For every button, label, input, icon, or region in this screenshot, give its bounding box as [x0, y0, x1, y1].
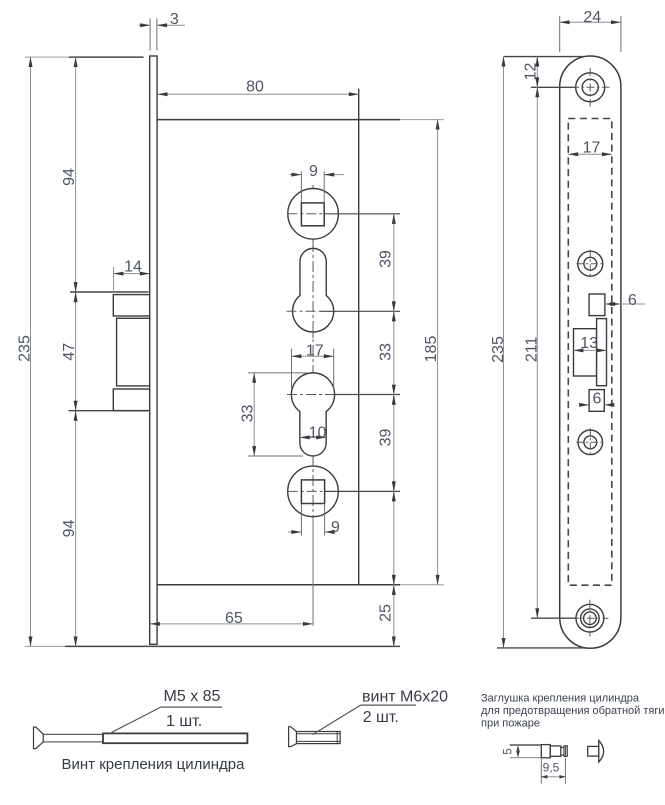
latch bolt face — [597, 319, 607, 386]
svg-text:33: 33 — [240, 405, 257, 423]
svg-text:39: 39 — [378, 250, 395, 268]
top latch cutout rect — [589, 294, 605, 316]
svg-text:12: 12 — [523, 63, 540, 81]
dimension 10 keyhole2 stem — [300, 424, 327, 441]
dimension 235 right — [490, 57, 507, 648]
keyhole 1 vertical centerline — [312, 241, 314, 338]
dimension 80 — [158, 79, 359, 96]
dashed body outline — [568, 119, 612, 586]
chain dimension line 39/33/39/25 — [393, 214, 395, 646]
lock body top edge — [157, 119, 400, 121]
dimension 13 — [574, 335, 607, 352]
dimension 12 — [523, 57, 540, 88]
svg-text:Заглушка крепления цилиндра: Заглушка крепления цилиндра — [481, 693, 640, 705]
cylinder block lower step — [113, 389, 149, 411]
svg-text:9: 9 — [331, 519, 340, 536]
bottom latch cutout rect — [589, 390, 604, 412]
svg-text:39: 39 — [378, 429, 395, 447]
cylinder block upper step — [113, 295, 149, 316]
lock body right edge — [358, 89, 360, 585]
plug dimension 9,5 — [541, 758, 565, 784]
svg-text:185: 185 — [423, 336, 440, 363]
hub 2 square — [301, 480, 324, 504]
keyhole 2 — [291, 373, 334, 456]
cylinder block middle — [117, 318, 150, 386]
faceplate bar — [150, 56, 157, 644]
plug front view square — [588, 746, 599, 756]
third screw — [576, 428, 604, 456]
dimension 9 top — [290, 163, 345, 202]
svg-text:80: 80 — [246, 79, 264, 96]
screw M5x85 shank — [43, 734, 103, 742]
top screw center extension line — [531, 86, 575, 88]
screw M5x85 threaded part — [103, 733, 247, 743]
svg-text:для предотвращения обратной тя: для предотвращения обратной тяги — [481, 705, 664, 717]
extension line block bottom — [69, 410, 149, 412]
keyhole 1 — [293, 248, 334, 332]
bottom screw center extension line — [531, 617, 577, 619]
hub 2 circle — [288, 466, 339, 517]
hub 2 vertical centerline — [312, 455, 314, 516]
svg-text:Винт крепления цилиндра: Винт крепления цилиндра — [62, 756, 246, 773]
dimension 33 keyhole2 — [240, 373, 307, 456]
leader diagonal M6 — [313, 705, 361, 735]
svg-text:M5 x 85: M5 x 85 — [164, 688, 221, 705]
svg-text:1 шт.: 1 шт. — [166, 713, 202, 730]
svg-text:235: 235 — [17, 335, 34, 362]
lock body bottom edge — [157, 584, 400, 586]
leader diagonal M5 — [108, 707, 160, 734]
top screw — [571, 68, 610, 107]
svg-text:235: 235 — [490, 336, 507, 363]
plug dimension 5 — [501, 746, 519, 757]
keyhole 1 centerline — [287, 310, 321, 312]
plug body flange — [541, 745, 550, 758]
screw M6x20 head — [289, 727, 297, 747]
screw M6x20 shank — [297, 732, 341, 744]
plug body step — [550, 746, 561, 756]
dimension 185 — [423, 120, 440, 585]
svg-text:13: 13 — [580, 335, 598, 352]
svg-text:9: 9 — [309, 163, 318, 180]
dimension 3 — [139, 11, 186, 51]
dimension chain 94/47/94 line — [75, 57, 77, 646]
plate top extension line — [504, 56, 584, 58]
svg-text:65: 65 — [225, 610, 243, 627]
bottom screw — [571, 600, 608, 637]
svg-text:3: 3 — [170, 11, 179, 28]
dimension 65 — [150, 610, 313, 627]
bottom extension line — [25, 645, 400, 647]
svg-text:6: 6 — [592, 390, 601, 407]
svg-text:47: 47 — [61, 343, 78, 361]
svg-text:2 шт.: 2 шт. — [363, 709, 399, 726]
top extension line — [25, 56, 144, 58]
hub 1 square — [301, 203, 324, 226]
dimension 17 keyhole2 — [292, 342, 334, 390]
dimension 6 bottom — [581, 390, 613, 407]
extension line block top — [70, 291, 149, 293]
svg-text:винт М6х20: винт М6х20 — [362, 688, 448, 705]
leader underline M5 — [161, 706, 222, 708]
svg-text:6: 6 — [628, 292, 637, 309]
keyhole 2 centerline — [287, 394, 334, 396]
plug neck — [561, 748, 564, 756]
hub 1 centerline horizontal — [287, 213, 325, 215]
svg-text:при пожаре: при пожаре — [481, 718, 540, 730]
dimension 235 left — [17, 57, 34, 646]
svg-text:94: 94 — [61, 520, 78, 538]
svg-text:17: 17 — [583, 140, 601, 157]
svg-text:25: 25 — [378, 604, 395, 622]
vertical centerline of holes — [312, 185, 314, 509]
dimension 6 right — [605, 292, 645, 309]
leader underline M6 — [361, 704, 416, 706]
svg-text:17: 17 — [306, 342, 324, 359]
dimension 9 bottom — [288, 504, 340, 536]
plug dimension 5 extension lines — [510, 744, 542, 746]
svg-text:211: 211 — [524, 337, 541, 363]
dimension 14 — [114, 259, 150, 294]
middle screw — [576, 250, 604, 278]
bottom plate extension line — [497, 647, 585, 649]
dimension 24 — [560, 9, 621, 52]
plug end disc — [564, 746, 567, 757]
svg-text:9,5: 9,5 — [543, 761, 560, 775]
latch wide body — [574, 329, 597, 376]
svg-text:24: 24 — [583, 9, 601, 26]
dimension 211 — [524, 87, 541, 618]
svg-text:33: 33 — [378, 343, 395, 361]
faceplate plate outline — [560, 56, 621, 648]
svg-text:14: 14 — [124, 259, 142, 276]
dimension 17 plate — [568, 140, 612, 157]
hub 1 circle — [288, 189, 339, 240]
plug front view flange crescent — [599, 740, 604, 762]
svg-text:94: 94 — [61, 168, 78, 186]
svg-text:10: 10 — [309, 424, 327, 441]
screw M5x85 head — [34, 727, 44, 749]
hub 2 centerline horizontal — [288, 490, 325, 492]
svg-text:5: 5 — [501, 748, 515, 755]
